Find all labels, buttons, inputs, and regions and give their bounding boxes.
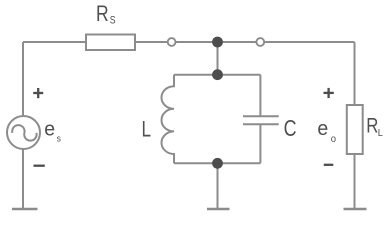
svg-text:e: e [44, 118, 55, 141]
svg-text:s: s [57, 133, 62, 143]
svg-text:C: C [284, 116, 297, 142]
svg-text:L: L [142, 118, 152, 143]
svg-text:L: L [378, 128, 384, 140]
svg-text:S: S [110, 14, 116, 26]
svg-text:R: R [96, 2, 109, 27]
svg-text:R: R [366, 114, 378, 137]
svg-text:e: e [317, 117, 328, 140]
svg-text:o: o [331, 134, 337, 145]
